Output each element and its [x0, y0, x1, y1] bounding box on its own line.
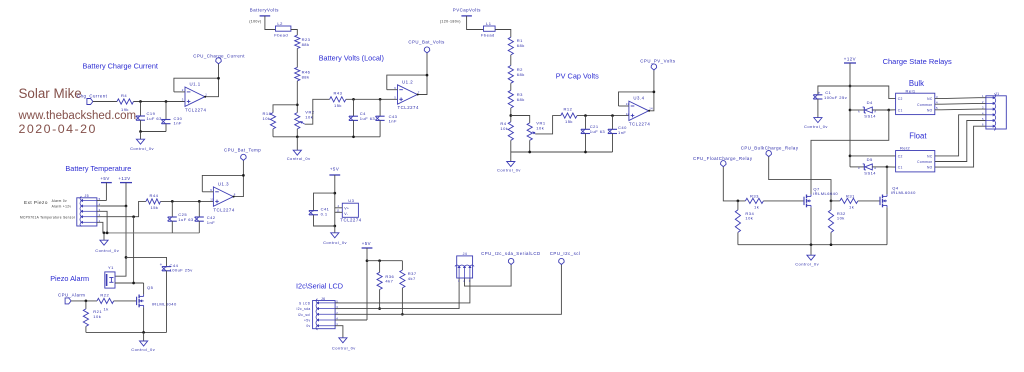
node junction — [509, 114, 512, 117]
wire Bulk NC to J1 pin1 — [935, 97, 986, 100]
svg-text:+5V: +5V — [330, 166, 339, 171]
svg-text:4k7: 4k7 — [385, 279, 393, 284]
wire — [850, 109, 864, 111]
wire sda row — [340, 278, 460, 309]
wire — [296, 81, 298, 113]
wire — [529, 140, 531, 152]
svg-text:I2c_scl: I2c_scl — [298, 313, 311, 317]
wire — [198, 221, 200, 233]
svg-text:Control_0v: Control_0v — [804, 124, 828, 129]
svg-text:11: 11 — [337, 209, 341, 213]
node junction — [378, 259, 381, 262]
diode D4 SS14 — [858, 100, 876, 118]
svg-text:C2: C2 — [898, 97, 903, 101]
wire Bulk NO to J1 pin3 — [935, 108, 986, 111]
ground Control_0v — [130, 132, 154, 151]
wire 0v pin to ground — [340, 326, 343, 338]
svg-text:Fbead: Fbead — [274, 33, 288, 38]
ground Control_0v — [287, 137, 311, 161]
svg-text:Q5: Q5 — [147, 285, 154, 290]
svg-text:2: 2 — [336, 311, 338, 315]
capacitor C41 0.1 — [309, 207, 330, 217]
wire — [165, 124, 167, 132]
node junction — [125, 205, 128, 208]
wire — [510, 83, 512, 90]
node junction — [352, 98, 355, 101]
capacitor C21 — [581, 124, 606, 134]
wire — [71, 300, 97, 302]
svg-text:C1: C1 — [825, 90, 831, 95]
svg-text:10k: 10k — [93, 314, 101, 319]
wire bottom rail — [511, 151, 613, 153]
label Ext Piezo — [24, 200, 48, 205]
svg-text:CPU_I2c_sda_SerialLCD: CPU_I2c_sda_SerialLCD — [481, 251, 541, 256]
ground Control_0v — [497, 152, 521, 173]
svg-text:1: 1 — [458, 279, 460, 283]
resistor R43 15k — [330, 90, 346, 108]
svg-text:TCL2274: TCL2274 — [629, 122, 650, 127]
svg-text:IRLML6040: IRLML6040 — [813, 191, 838, 196]
port CPU_Bat_Volts — [408, 40, 445, 54]
svg-text:19k: 19k — [121, 107, 129, 112]
label +5v — [304, 319, 310, 323]
svg-text:1k: 1k — [104, 307, 110, 312]
power +12V — [844, 57, 856, 167]
wire — [161, 200, 214, 202]
piezo Y1 — [105, 265, 115, 288]
port CPU_FloatCharge_Relay — [693, 156, 753, 167]
node junction — [849, 109, 852, 112]
label S LCD — [299, 301, 311, 305]
section title Battery Temperature — [65, 164, 131, 173]
wire — [577, 115, 629, 117]
wire — [379, 290, 381, 309]
op-amp U1.1 TCL2274 — [182, 82, 208, 113]
connector J5 Ext Piezo header — [77, 194, 101, 227]
svg-text:1k: 1k — [754, 205, 760, 210]
node junction — [103, 232, 106, 235]
wire — [619, 105, 629, 107]
svg-text:Solar Mike: Solar Mike — [19, 86, 82, 101]
transistor Q4 IRLML6040 — [880, 185, 916, 207]
svg-text:Y1: Y1 — [108, 265, 114, 270]
wire — [379, 261, 381, 273]
svg-text:NC: NC — [927, 97, 933, 101]
wire +12V down — [115, 206, 126, 276]
svg-text:U1.3: U1.3 — [218, 181, 229, 186]
svg-text:1nF: 1nF — [207, 220, 215, 225]
wire — [165, 102, 167, 120]
op-amp U1.3 TCL2274 — [210, 181, 236, 212]
connector J4 — [455, 252, 474, 283]
port Chg_Current — [77, 93, 108, 104]
wire feedback — [387, 75, 427, 90]
wire scl row — [340, 265, 562, 315]
svg-text:TCL2274: TCL2274 — [398, 105, 419, 110]
wire — [174, 91, 185, 93]
svg-text:5: 5 — [394, 96, 396, 100]
svg-text:3: 3 — [469, 279, 471, 283]
svg-text:U3: U3 — [348, 198, 354, 203]
wire — [296, 129, 298, 137]
section title Piezo Alarm — [50, 274, 89, 283]
wire — [401, 288, 403, 314]
wire output — [204, 64, 218, 98]
wire — [850, 166, 864, 168]
wire bottom rail — [273, 136, 380, 138]
node junction — [333, 225, 336, 228]
port CPU_PV_Volts — [640, 59, 676, 71]
resistor R12 15k — [561, 107, 577, 124]
svg-text:10: 10 — [210, 198, 214, 202]
node junction — [296, 103, 299, 106]
title block text Solar Mike — [18, 86, 137, 136]
node junction — [296, 135, 299, 138]
svg-text:U3.4: U3.4 — [633, 96, 644, 101]
svg-text:2: 2 — [99, 213, 101, 217]
svg-text:CPU_FloatCharge_Relay: CPU_FloatCharge_Relay — [693, 156, 753, 161]
wire — [401, 261, 403, 270]
node junction — [333, 192, 336, 195]
svg-text:D4: D4 — [867, 100, 873, 105]
svg-text:Charge State Relays: Charge State Relays — [883, 57, 952, 66]
capacitor C25 — [168, 212, 194, 222]
wire — [872, 166, 887, 168]
port CPU_I2c_sda_SerialLCD — [481, 251, 541, 264]
wire — [830, 232, 832, 244]
wire to Float C2 — [850, 155, 896, 157]
svg-text:BatteryVolts: BatteryVolts — [250, 8, 280, 13]
wire — [379, 120, 381, 136]
svg-text:5: 5 — [99, 197, 101, 201]
wire — [114, 300, 137, 302]
svg-text:SS14: SS14 — [864, 114, 876, 119]
op-amp U3.4 TCL2274 — [626, 96, 653, 127]
wire Float NO to J1 pin6 — [935, 126, 986, 167]
svg-text:J4: J4 — [463, 252, 468, 256]
wire ground rail — [103, 232, 199, 234]
label Float — [909, 132, 927, 141]
connector J6 LCD header — [313, 297, 340, 330]
wire to Bulk C1 — [889, 109, 896, 111]
wire output — [648, 70, 654, 112]
inductor L1 Fbead — [481, 21, 495, 37]
node junction — [217, 77, 220, 80]
label Alarm +12v — [52, 204, 72, 208]
section title PV Cap Volts — [556, 71, 599, 80]
wire — [612, 134, 614, 153]
node junction — [830, 200, 833, 203]
wire Q4 source — [886, 207, 888, 244]
node junction — [849, 155, 852, 158]
svg-text:S LCD: S LCD — [299, 301, 311, 305]
svg-text:4: 4 — [338, 204, 340, 208]
svg-text:1uF 63: 1uF 63 — [147, 116, 163, 121]
wire — [314, 215, 335, 226]
node junction — [611, 114, 614, 117]
wire — [872, 109, 889, 111]
wire — [830, 201, 832, 210]
label I2c_sda — [297, 307, 311, 311]
svg-text:U1.2: U1.2 — [402, 79, 413, 84]
wire wiper — [305, 99, 330, 124]
label I2c_scl — [298, 313, 311, 317]
potentiometer VR2 10k — [295, 110, 315, 129]
label Bulk — [909, 79, 924, 88]
wire — [296, 49, 298, 68]
section title I2c Serial LCD — [296, 282, 343, 291]
svg-text:I2c_sda: I2c_sda — [297, 307, 311, 311]
capacitor C40 1nF — [608, 125, 627, 135]
wire — [346, 98, 398, 100]
svg-text:NO: NO — [927, 166, 933, 170]
resistor R2 68k — [508, 66, 525, 84]
svg-text:CPU_Bat_Volts: CPU_Bat_Volts — [408, 40, 445, 45]
svg-text:+12V: +12V — [844, 57, 856, 62]
section title Battery Volts (Local) — [319, 53, 384, 62]
capacitor C42 1nF — [195, 215, 216, 225]
resistor R4 10k — [500, 121, 513, 140]
section title Charge State Relays — [883, 57, 952, 66]
wire — [612, 116, 614, 130]
node junction — [426, 74, 429, 77]
node junction — [142, 331, 145, 334]
wire — [134, 101, 186, 103]
svg-text:Rel1: Rel1 — [906, 88, 916, 93]
port PVCapVolts — [440, 8, 481, 24]
ground Control_0v — [95, 233, 119, 253]
wire — [737, 232, 739, 244]
wire Float Common to J1 pin5 — [935, 121, 986, 162]
wire — [85, 326, 87, 332]
wire — [858, 200, 880, 202]
wire — [510, 140, 512, 152]
svg-text:C1: C1 — [898, 108, 903, 112]
wire — [467, 16, 484, 30]
node junction — [810, 243, 813, 246]
svg-text:TCL2274: TCL2274 — [340, 218, 361, 223]
wire pin3 to rail — [101, 211, 108, 233]
svg-text:1uF 63: 1uF 63 — [178, 217, 194, 222]
svg-text:(100v): (100v) — [249, 20, 261, 24]
label MCP9701A Temperature Sensor — [20, 216, 76, 220]
svg-text:Control_0v: Control_0v — [497, 168, 521, 173]
node junction — [401, 313, 404, 316]
wire — [265, 16, 276, 30]
node junction — [849, 85, 852, 88]
wire — [511, 116, 530, 123]
port CPU_Bat_Temp — [224, 148, 261, 161]
svg-text:15k: 15k — [334, 103, 342, 108]
wire — [291, 30, 297, 36]
svg-text:15k: 15k — [151, 205, 159, 210]
resistor R4 19k — [117, 93, 134, 112]
svg-text:3: 3 — [336, 305, 338, 309]
relay Rel1 Bulk — [896, 88, 938, 114]
op-amp U1.2 TCL2274 — [394, 79, 420, 110]
svg-text:SS14: SS14 — [864, 171, 876, 176]
svg-text:Common: Common — [917, 103, 932, 107]
wire — [763, 200, 804, 202]
svg-text:TCL2274: TCL2274 — [213, 207, 234, 212]
svg-text:4k7: 4k7 — [408, 276, 416, 281]
svg-text:1nF: 1nF — [389, 119, 397, 124]
svg-text:3: 3 — [182, 98, 184, 102]
wire C41 branch — [314, 193, 335, 211]
svg-text:Common: Common — [917, 160, 932, 164]
power +5V — [100, 176, 111, 200]
svg-text:C1: C1 — [898, 166, 903, 170]
wire — [140, 120, 142, 131]
svg-text:C2: C2 — [898, 155, 903, 159]
wire — [353, 99, 355, 116]
node junction — [132, 282, 135, 285]
svg-text:4: 4 — [336, 317, 338, 321]
resistor R1 68k — [508, 37, 525, 55]
wire bottom rail — [86, 331, 167, 333]
svg-text:PV Cap Volts: PV Cap Volts — [556, 71, 599, 80]
svg-text:IRLML6040: IRLML6040 — [152, 301, 177, 306]
capacitor C19 — [136, 111, 162, 121]
wire S LCD row — [340, 278, 470, 303]
svg-text:R33: R33 — [750, 193, 759, 198]
connector J1 — [982, 92, 1006, 130]
svg-text:NC: NC — [927, 155, 933, 159]
svg-text:R12: R12 — [564, 107, 573, 112]
svg-text:CPU_I2c_scl: CPU_I2c_scl — [550, 251, 581, 256]
wire Q7 source — [810, 207, 812, 244]
wire +5v pin — [340, 319, 368, 321]
svg-text:CPU_Alarm: CPU_Alarm — [58, 293, 85, 298]
svg-text:10k: 10k — [263, 116, 271, 121]
node junction — [887, 109, 890, 112]
svg-text:Battery Volts (Local): Battery Volts (Local) — [319, 53, 384, 62]
relay Rel2 Float — [896, 146, 935, 172]
svg-text:+: + — [160, 262, 163, 267]
wire pin2 to R44 — [101, 201, 147, 216]
svg-text:R22: R22 — [100, 292, 109, 297]
svg-text:Alarm +12v: Alarm +12v — [52, 204, 72, 208]
svg-text:1: 1 — [99, 219, 101, 223]
svg-text:R4: R4 — [121, 93, 127, 98]
node junction — [528, 151, 531, 154]
svg-text:(120-180v): (120-180v) — [440, 20, 461, 24]
svg-text:1nF: 1nF — [618, 130, 626, 135]
port CPU_Alarm — [58, 293, 85, 304]
svg-text:2020-04-20: 2020-04-20 — [19, 122, 97, 136]
wire pin5 to +5V — [101, 200, 107, 202]
svg-text:1: 1 — [336, 322, 338, 326]
wire — [585, 134, 587, 153]
wire feedback — [174, 78, 219, 92]
svg-text:0.1: 0.1 — [321, 211, 328, 216]
wire — [141, 131, 167, 133]
node junction — [584, 114, 587, 117]
svg-text:Control_0v: Control_0v — [287, 156, 311, 161]
svg-text:Control_0v: Control_0v — [95, 248, 119, 253]
svg-text:TCL2274: TCL2274 — [185, 107, 206, 112]
node junction — [886, 166, 889, 169]
resistor R3 68k — [508, 90, 525, 108]
transistor Q5 IRLML6040 — [137, 285, 177, 307]
svg-text:CPU_Charge_Current: CPU_Charge_Current — [193, 54, 245, 59]
svg-text:Bulk: Bulk — [909, 79, 924, 88]
svg-text:+5V: +5V — [362, 241, 371, 246]
ground Control_0v — [804, 99, 828, 129]
svg-text:Fbead: Fbead — [481, 33, 495, 38]
wire feedback — [202, 175, 243, 191]
node junction — [171, 200, 174, 203]
svg-text:Float: Float — [909, 132, 927, 141]
op-amp power U3 TCL2274 — [335, 198, 362, 223]
svg-text:1nF: 1nF — [174, 121, 182, 126]
svg-text:14: 14 — [649, 107, 653, 111]
svg-text:Control_0v: Control_0v — [130, 146, 154, 151]
wire — [198, 201, 200, 217]
svg-text:L1: L1 — [486, 21, 492, 26]
power +12V — [118, 176, 132, 206]
wire Q5 source — [143, 307, 145, 332]
transistor Q7 IRLML6040 — [804, 186, 838, 207]
node junction — [737, 200, 740, 203]
wire — [387, 89, 398, 91]
svg-text:Battery Charge Current: Battery Charge Current — [83, 62, 158, 71]
wire to Float C1 — [887, 166, 896, 168]
wire J4 pin2 to sda port — [465, 265, 512, 287]
svg-text:+: + — [818, 91, 821, 96]
wire Q5 drain — [143, 283, 145, 294]
ground Control_0v — [323, 226, 347, 245]
resistor R44 15k — [146, 193, 161, 210]
label Alarm 0v — [52, 199, 67, 203]
svg-text:NO: NO — [927, 108, 933, 112]
svg-text:U1.1: U1.1 — [190, 82, 201, 87]
svg-text:10k: 10k — [745, 216, 753, 221]
wire — [140, 102, 142, 117]
svg-text:15k: 15k — [565, 119, 573, 124]
node junction — [125, 256, 128, 259]
wire — [166, 271, 168, 333]
svg-text:1uF 63: 1uF 63 — [590, 129, 606, 134]
resistor R21 10k — [83, 309, 102, 327]
svg-text:Control_0v: Control_0v — [131, 347, 155, 352]
node junction — [139, 130, 142, 133]
resistor R34 10k — [735, 210, 754, 233]
resistor R37 4k7 — [400, 270, 417, 288]
svg-text:Control_0v: Control_0v — [332, 345, 356, 350]
svg-text:IRLML6040: IRLML6040 — [891, 190, 916, 195]
svg-text:1uF 63: 1uF 63 — [360, 116, 376, 121]
svg-text:10k: 10k — [500, 126, 508, 131]
svg-text:CPU_Bat_Temp: CPU_Bat_Temp — [224, 148, 261, 153]
svg-text:100uF 25v: 100uF 25v — [170, 268, 194, 273]
svg-text:100uF 25v: 100uF 25v — [824, 95, 848, 100]
capacitor C43 1nF — [375, 114, 397, 124]
wire feedback — [619, 92, 654, 106]
node junction — [352, 135, 355, 138]
svg-text:MCP9701A Temperature Sensor: MCP9701A Temperature Sensor — [20, 216, 76, 220]
svg-text:J6: J6 — [321, 297, 326, 301]
wire C44 top — [126, 257, 167, 267]
svg-text:0v: 0v — [306, 324, 310, 328]
wire pin2 branch down — [133, 217, 135, 283]
wire — [202, 191, 213, 193]
node junction — [106, 232, 109, 235]
svg-text:D5: D5 — [867, 157, 873, 162]
svg-text:J5: J5 — [85, 194, 90, 198]
svg-text:CPU_BulkCharge_Relay: CPU_BulkCharge_Relay — [741, 145, 799, 150]
capacitor C1 100uF 25v — [813, 90, 848, 100]
